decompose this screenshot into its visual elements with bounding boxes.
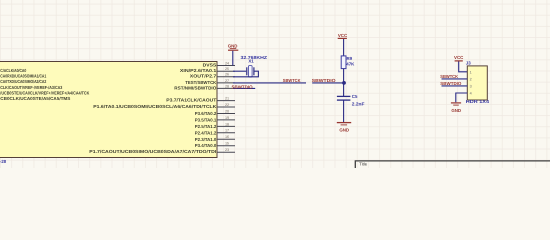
- capacitor C5: [337, 96, 351, 100]
- svg-text:32.768KHZ: 32.768KHZ: [241, 55, 268, 60]
- svg-text:DVSS: DVSS: [203, 62, 217, 67]
- svg-text:R9: R9: [347, 56, 353, 61]
- svg-text:2.2nF: 2.2nF: [352, 102, 365, 107]
- svg-text:SBWTDIO: SBWTDIO: [312, 78, 336, 83]
- svg-text:SBWTDIO: SBWTDIO: [440, 81, 462, 86]
- svg-text:J3: J3: [466, 61, 471, 66]
- svg-text:VCC: VCC: [338, 33, 348, 38]
- svg-text:XIN/P2.6/TA0.1: XIN/P2.6/TA0.1: [180, 68, 217, 73]
- junction SBWTDIO node: [342, 81, 346, 85]
- IC U1 left pin names: [0, 68, 90, 101]
- wire SBWTCK from TEST pin: [233, 82, 306, 84]
- svg-text:P2.3/TA1.0: P2.3/TA1.0: [195, 137, 217, 142]
- svg-text:47K: 47K: [346, 62, 355, 67]
- VCC power port at J3 pin1: [454, 55, 464, 61]
- wire SBWTDIO to J3 pin3: [442, 85, 468, 87]
- svg-text:X1: X1: [248, 59, 254, 64]
- wire VCC to R9: [343, 39, 345, 56]
- IC U1 right pin stubs: [217, 66, 235, 153]
- GND power port at DVSS pin: [228, 44, 239, 51]
- GND power port below C5: [337, 123, 351, 133]
- svg-text:21: 21: [225, 97, 229, 101]
- svg-text:RST/NMI/SBWTDIO: RST/NMI/SBWTDIO: [174, 85, 217, 90]
- wire C5 to GND: [343, 100, 345, 122]
- svg-text:C/ACLK/A0/CA0: C/ACLK/A0/CA0: [0, 68, 26, 73]
- svg-text:HDR 1X4: HDR 1X4: [466, 99, 490, 104]
- svg-text:28: 28: [225, 84, 229, 88]
- svg-text:SBWTCK: SBWTCK: [283, 78, 301, 83]
- svg-text:Title: Title: [359, 161, 367, 166]
- wire XIN to crystal: [233, 70, 246, 72]
- svg-text:P3.7/TA1CLK/CAOUT: P3.7/TA1CLK/CAOUT: [166, 98, 216, 103]
- svg-text:SBWTCK: SBWTCK: [440, 74, 458, 79]
- wire crystal to XOUT: [233, 71, 258, 77]
- svg-text:16: 16: [225, 135, 229, 139]
- svg-text:P2.4/TA1.2: P2.4/TA1.2: [195, 130, 217, 135]
- svg-text:P2.5/TA1.2: P2.5/TA1.2: [195, 124, 217, 129]
- svg-text:P3.4/TA0.0: P3.4/TA0.0: [195, 143, 217, 148]
- svg-text:22: 22: [225, 103, 229, 107]
- svg-text:P3.5/TA0.1: P3.5/TA0.1: [195, 117, 217, 122]
- svg-text:C5: C5: [352, 94, 358, 99]
- wire R9 to C5: [343, 69, 345, 97]
- connector J3 body: [467, 66, 487, 100]
- svg-text:-28: -28: [0, 159, 7, 164]
- svg-text:4: 4: [470, 92, 472, 96]
- svg-text:P1.7/CAOUT/UCB0SIMO/UCB0SDA/A7: P1.7/CAOUT/UCB0SIMO/UCB0SDA/A7/CA7/TDO/T…: [89, 149, 216, 154]
- title block border: [355, 161, 550, 168]
- svg-text:GND: GND: [228, 44, 238, 49]
- GND power port at J3 pin4: [451, 103, 461, 113]
- wire SBWTCK to J3 pin2: [442, 78, 468, 80]
- resistor R9: [341, 56, 346, 69]
- svg-text:25: 25: [225, 67, 229, 71]
- svg-text:17: 17: [225, 129, 229, 133]
- wire VCC to J3 pin1: [459, 62, 468, 72]
- svg-text:/UCB0STE/UCA0CLK/VREF+/VEREF+/: /UCB0STE/UCA0CLK/VREF+/VEREF+/A4/CA4/TCK: [0, 90, 90, 95]
- IC U1 pin numbers: [225, 61, 229, 152]
- svg-text:P1.6/TA0.1/UCB0SOMI/UCB0SCL/A6: P1.6/TA0.1/UCB0SOMI/UCB0SCL/A6/CA6/TDI/T…: [93, 104, 217, 109]
- svg-text:18: 18: [225, 122, 229, 126]
- connector J3 pin numbers: [470, 70, 472, 95]
- wire J3 pin4 to GND: [456, 93, 468, 102]
- svg-text:TEST/SBWTCK: TEST/SBWTCK: [185, 80, 217, 85]
- svg-text:CA0RXD/UCA0SOMI/A1/CA1: CA0RXD/UCA0SOMI/A1/CA1: [0, 74, 46, 79]
- svg-text:24: 24: [225, 61, 229, 65]
- svg-text:19: 19: [225, 116, 229, 120]
- svg-text:SBWTDIO: SBWTDIO: [232, 84, 254, 89]
- svg-text:P3.6/TA0.2: P3.6/TA0.2: [195, 111, 217, 116]
- wire SBWTDIO to RC junction: [312, 82, 344, 84]
- IC U1 MSP430 body: [0, 62, 217, 158]
- wire SBWTDIO at RST pin: [233, 87, 255, 89]
- svg-text:1: 1: [470, 70, 472, 74]
- svg-text:GND: GND: [451, 108, 461, 113]
- svg-text:CB0CLK/UCA0STE/A5/CA5/TMS: CB0CLK/UCA0STE/A5/CA5/TMS: [0, 96, 70, 101]
- svg-text:XOUT/P2.7: XOUT/P2.7: [190, 74, 217, 79]
- svg-text:GND: GND: [339, 128, 349, 133]
- svg-text:2: 2: [470, 77, 472, 81]
- svg-text:CLK/CAOUT/VREF-/VEREF-/A3/CA3: CLK/CAOUT/VREF-/VEREF-/A3/CA3: [0, 85, 62, 90]
- svg-text:20: 20: [225, 109, 229, 113]
- svg-text:VCC: VCC: [454, 55, 464, 60]
- svg-text:27: 27: [225, 79, 229, 83]
- IC U1 right pin names: [89, 62, 217, 154]
- svg-text:CA0TXD/UCA0SIMO/A2/CA2: CA0TXD/UCA0SIMO/A2/CA2: [0, 79, 46, 84]
- wire DVSS to GND: [232, 51, 234, 66]
- svg-text:26: 26: [225, 73, 229, 77]
- svg-text:3: 3: [470, 84, 472, 88]
- svg-text:15: 15: [225, 142, 229, 146]
- VCC power port above R9: [338, 33, 348, 38]
- svg-text:23: 23: [225, 148, 229, 152]
- crystal X1: [247, 66, 254, 77]
